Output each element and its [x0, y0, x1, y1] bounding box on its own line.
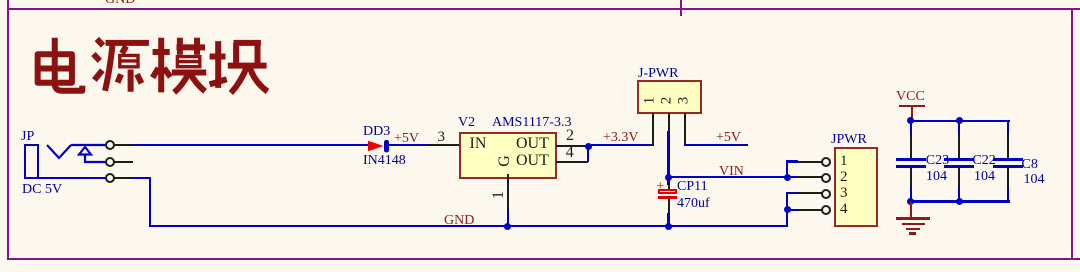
- wire: jack pin3 right: [134, 177, 151, 179]
- JPWR pin 2 stub: [797, 176, 822, 178]
- wire JPWR pins 3-4 riser: [786, 192, 788, 226]
- label J-PWR: [638, 67, 678, 81]
- pin number 3: [438, 130, 446, 145]
- wire pin4 row to stub: [788, 209, 798, 211]
- J-PWR pin number 1 (rotated): [642, 96, 657, 104]
- wire: vertical down to GND rail: [149, 177, 151, 227]
- pin 1 of V2 (vertical): [507, 174, 509, 209]
- JP pin 1 stub: [113, 144, 134, 146]
- sheet border right line: [1071, 8, 1073, 260]
- JP pin 3 circle: [105, 173, 115, 183]
- label C22 104: [974, 170, 995, 184]
- label JP: [21, 130, 34, 144]
- JPWR pin 2 circle: [821, 173, 831, 183]
- JPWR pin number 4: [840, 202, 848, 217]
- CP11 plus sign: [656, 180, 664, 194]
- sheet border bottom line: [7, 258, 1080, 260]
- wire V2 pin1 to GND rail: [507, 209, 509, 226]
- pin 3 of V2: [427, 144, 459, 146]
- regulator V2 AMS1117-3.3 body: [459, 132, 557, 179]
- pin 2 of V2: [556, 145, 588, 147]
- JP jack switch / arrow symbol: [40, 138, 110, 168]
- node GND label: [444, 214, 474, 228]
- J-PWR pin number 2 (rotated): [659, 96, 674, 104]
- capacitor C23: [910, 121, 912, 135]
- capacitor C8: [1007, 121, 1009, 135]
- CP11 positive plate: [658, 189, 678, 195]
- ground symbol: [910, 202, 912, 218]
- label C8: [1022, 158, 1038, 172]
- wire +3.3V net: [588, 144, 654, 146]
- CP11 bottom lead: [668, 199, 670, 214]
- JP pin 3 stub: [113, 177, 134, 179]
- wire JPWR pins 1-2 riser: [786, 160, 788, 178]
- junction dot top C23: [907, 117, 914, 124]
- junction dot bottom C22: [956, 198, 963, 205]
- wire pin2 row to stub: [788, 176, 798, 178]
- wire +5V to J-PWR pin3: [684, 144, 748, 146]
- wire VIN net: [668, 176, 788, 178]
- node VIN label: [719, 165, 744, 179]
- JP pin 2 circle: [105, 157, 115, 167]
- junction dot top C22: [956, 117, 963, 124]
- node +5V label: [394, 132, 419, 146]
- sheet border left line: [7, 0, 9, 260]
- label IN4148: [363, 154, 406, 168]
- wire cap top rail: [910, 120, 1010, 122]
- label V2: [458, 116, 475, 130]
- JP pin 2 stub: [113, 161, 133, 163]
- pin 4 of V2: [556, 161, 588, 163]
- wire diode to U pin3: [389, 144, 427, 146]
- label C22: [972, 154, 995, 168]
- JPWR pin 1 stub: [797, 161, 822, 163]
- JPWR pin 4 circle: [821, 205, 831, 215]
- label AMS1117-3.3: [492, 116, 571, 130]
- node GND (clipped label from sheet above): [105, 0, 137, 5]
- J-PWR pin 1 (vertical): [652, 113, 654, 145]
- junction dot VIN at JPWR: [784, 174, 791, 181]
- connector JPWR body: [834, 147, 878, 227]
- pin number 4: [566, 145, 574, 161]
- JPWR pin 3 circle: [821, 189, 831, 199]
- pin name OUT (pin4): [516, 153, 549, 169]
- label JPWR: [831, 133, 867, 147]
- JPWR pin 1 circle: [821, 157, 831, 167]
- wire +5V net: jack pin1 to diode: [134, 144, 368, 146]
- capacitor CP11 (polarized): [667, 177, 669, 185]
- junction dot CP11 bottom: [665, 223, 672, 230]
- connector J-PWR body: [637, 80, 702, 114]
- power VCC symbol: [896, 90, 925, 104]
- JPWR pin 3 stub: [797, 192, 822, 194]
- diode DD3: [364, 136, 394, 156]
- JPWR pin number 2: [840, 170, 848, 185]
- junction dot bottom C23: [907, 198, 914, 205]
- junction dot at V2 out: [585, 143, 592, 150]
- JPWR pin number 3: [840, 186, 848, 201]
- CP11 negative plate: [658, 196, 678, 199]
- pin name OUT (pin2): [516, 136, 549, 152]
- capacitor C22: [958, 121, 960, 135]
- pin number 1 (rotated): [491, 191, 507, 199]
- sheet border top line: [7, 8, 1080, 10]
- label DC 5V: [22, 183, 62, 197]
- JPWR pin 4 stub: [797, 209, 822, 211]
- JP pin 1 circle: [105, 140, 115, 150]
- JP jack body rectangle: [24, 144, 39, 179]
- wire GND rail bottom: [149, 225, 788, 227]
- wire cap bottom rail: [910, 200, 1010, 202]
- J-PWR pin 3 (vertical): [684, 113, 686, 145]
- wire J-PWR pin2 down to VIN: [667, 131, 669, 177]
- JP bottom-pin wire: [37, 177, 106, 179]
- title 电源模块: [31, 37, 271, 93]
- pin name IN: [470, 136, 487, 152]
- J-PWR pin number 3 (rotated): [676, 96, 691, 104]
- junction dot pin4: [784, 206, 791, 213]
- label DD3: [363, 125, 390, 139]
- J-PWR pin 2 (vertical): [668, 113, 670, 132]
- junction dot CP11 top: [665, 174, 672, 181]
- label CP11: [677, 180, 708, 194]
- sheet border top tick: [680, 0, 682, 16]
- pin name G (rotated): [497, 156, 513, 168]
- node +5V label (right): [716, 131, 741, 145]
- JPWR pin number 1: [840, 154, 848, 169]
- pin number 2: [566, 128, 574, 144]
- label 470uf: [677, 197, 710, 211]
- wire pin4 up to pin2: [587, 146, 589, 162]
- junction dot V2 gnd: [504, 223, 511, 230]
- label C23 104: [926, 170, 947, 184]
- node +3.3V label: [603, 131, 639, 145]
- label C8 104: [1024, 173, 1045, 187]
- label C23: [926, 154, 949, 168]
